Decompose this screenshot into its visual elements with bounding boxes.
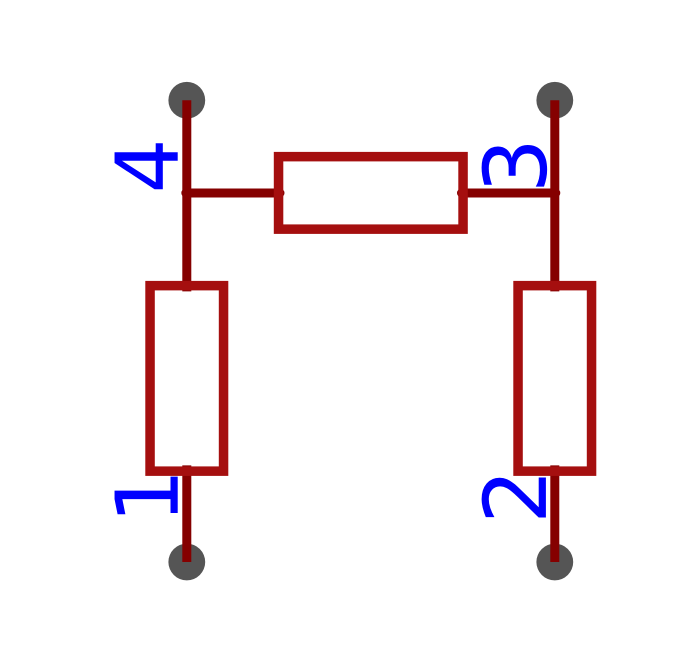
pin 1 terminal dot [168, 544, 205, 581]
pin label 1 [115, 477, 178, 515]
pin label 2 [482, 477, 546, 517]
pin label 4 [115, 143, 178, 189]
wire pin3 to R3 top [550, 100, 559, 291]
pin 3 terminal dot [536, 82, 573, 119]
wire R1 bottom to pin1 [182, 465, 191, 562]
pin 2 terminal dot [536, 544, 573, 581]
wire R3 bottom to pin2 [550, 465, 559, 562]
wire R2 right to node3 [462, 189, 556, 198]
pin label 3 [482, 145, 548, 187]
resistor R2 (top) [279, 157, 464, 230]
pin 4 terminal dot [168, 82, 205, 119]
wire pin4 to R1 top [182, 100, 191, 291]
wire node4 to R2 left [186, 189, 280, 198]
resistor R3 (right) [518, 286, 592, 472]
resistor R1 (left) [150, 286, 224, 472]
